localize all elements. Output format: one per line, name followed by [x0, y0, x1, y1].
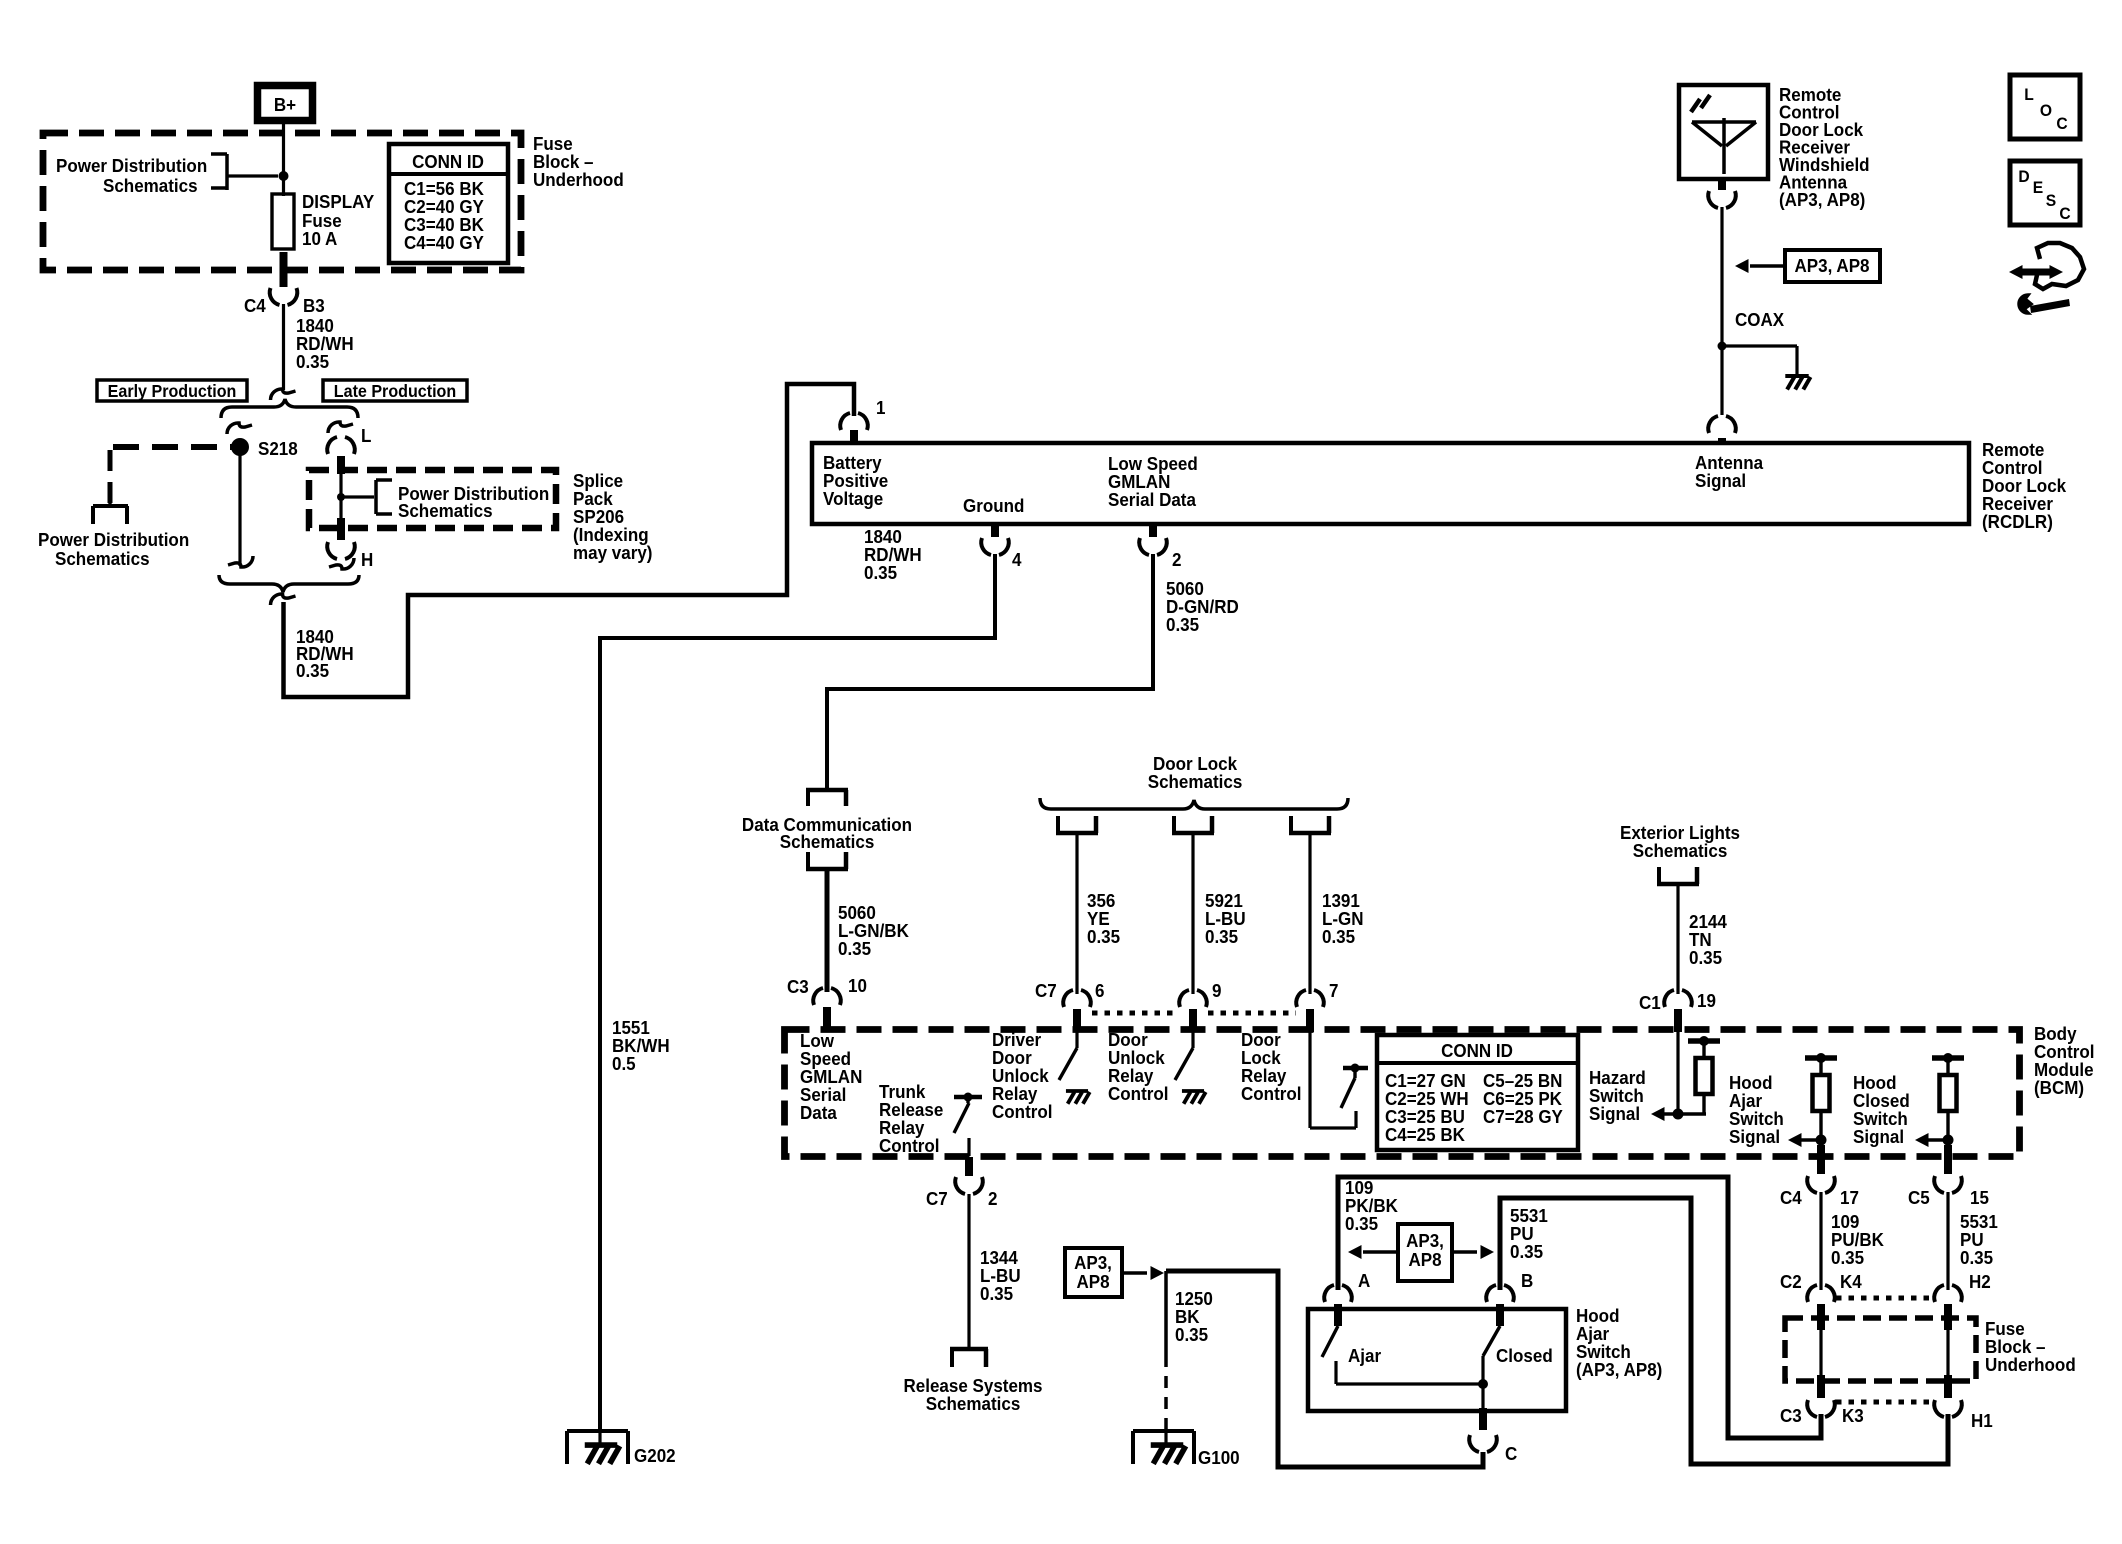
svg-text:AP3, AP8: AP3, AP8	[1794, 255, 1869, 276]
svg-text:Schematics: Schematics	[1633, 840, 1728, 861]
svg-text:G100: G100	[1198, 1447, 1240, 1468]
svg-text:H1: H1	[1971, 1410, 1993, 1431]
svg-text:1: 1	[876, 397, 886, 418]
svg-text:Early Production: Early Production	[108, 381, 237, 401]
svg-text:Power Distribution: Power Distribution	[38, 529, 189, 550]
svg-text:6: 6	[1095, 980, 1105, 1001]
svg-text:K4: K4	[1840, 1271, 1862, 1292]
svg-text:Underhood: Underhood	[533, 169, 624, 190]
svg-text:Ajar: Ajar	[1348, 1345, 1381, 1366]
svg-text:Schematics: Schematics	[926, 1393, 1021, 1414]
svg-text:Control: Control	[992, 1101, 1052, 1122]
svg-text:G202: G202	[634, 1445, 676, 1466]
svg-text:COAX: COAX	[1735, 309, 1784, 330]
svg-text:C4=40 GY: C4=40 GY	[404, 232, 484, 253]
svg-text:9: 9	[1212, 980, 1222, 1001]
svg-text:0.35: 0.35	[1510, 1241, 1543, 1262]
svg-text:C7: C7	[1035, 980, 1057, 1001]
svg-text:0.35: 0.35	[864, 562, 897, 583]
svg-text:15: 15	[1970, 1187, 1989, 1208]
svg-text:0.35: 0.35	[1960, 1247, 1993, 1268]
svg-text:Closed: Closed	[1496, 1345, 1553, 1366]
svg-text:Schematics: Schematics	[103, 175, 198, 196]
svg-text:AP8: AP8	[1076, 1271, 1109, 1292]
svg-text:0.35: 0.35	[838, 938, 871, 959]
svg-text:19: 19	[1697, 990, 1716, 1011]
svg-text:0.35: 0.35	[1831, 1247, 1864, 1268]
svg-text:C3: C3	[787, 976, 809, 997]
svg-text:(BCM): (BCM)	[2034, 1077, 2084, 1098]
svg-text:B: B	[1521, 1270, 1533, 1291]
svg-text:L: L	[2024, 85, 2034, 104]
svg-text:Schematics: Schematics	[55, 548, 150, 569]
svg-text:B+: B+	[274, 94, 296, 115]
svg-text:C: C	[2056, 114, 2067, 133]
svg-text:A: A	[1358, 1270, 1370, 1291]
svg-text:AP8: AP8	[1408, 1249, 1441, 1270]
svg-text:Ground: Ground	[963, 495, 1024, 516]
svg-text:H2: H2	[1969, 1271, 1991, 1292]
svg-text:C4: C4	[244, 295, 266, 316]
svg-text:C4: C4	[1780, 1187, 1802, 1208]
svg-text:0.35: 0.35	[1166, 614, 1199, 635]
svg-text:Serial Data: Serial Data	[1108, 489, 1196, 510]
svg-text:Late Production: Late Production	[334, 381, 456, 401]
svg-text:2: 2	[988, 1188, 998, 1209]
svg-text:C4=25 BK: C4=25 BK	[1385, 1124, 1465, 1145]
svg-text:S218: S218	[258, 438, 298, 459]
svg-text:B3: B3	[303, 295, 325, 316]
svg-text:4: 4	[1012, 549, 1022, 570]
svg-text:10: 10	[848, 975, 867, 996]
svg-text:Signal: Signal	[1695, 470, 1746, 491]
svg-text:E: E	[2033, 178, 2044, 197]
svg-text:0.35: 0.35	[1345, 1213, 1378, 1234]
svg-text:0.35: 0.35	[1087, 926, 1120, 947]
svg-text:(AP3, AP8): (AP3, AP8)	[1779, 189, 1865, 210]
svg-text:0.35: 0.35	[1689, 947, 1722, 968]
svg-text:C7=28 GY: C7=28 GY	[1483, 1106, 1563, 1127]
svg-text:Schematics: Schematics	[780, 831, 875, 852]
svg-text:Control: Control	[879, 1135, 939, 1156]
svg-text:CONN ID: CONN ID	[1441, 1040, 1513, 1061]
svg-text:Voltage: Voltage	[823, 488, 883, 509]
svg-text:C: C	[2059, 204, 2070, 223]
svg-text:Signal: Signal	[1589, 1103, 1640, 1124]
svg-text:D: D	[2018, 167, 2029, 186]
svg-text:Power Distribution: Power Distribution	[56, 155, 207, 176]
svg-text:Control: Control	[1108, 1083, 1168, 1104]
svg-text:Control: Control	[1241, 1083, 1301, 1104]
svg-text:may vary): may vary)	[573, 542, 653, 563]
svg-text:C2: C2	[1780, 1271, 1802, 1292]
svg-text:Data: Data	[800, 1102, 837, 1123]
svg-text:7: 7	[1329, 980, 1339, 1001]
svg-text:(AP3, AP8): (AP3, AP8)	[1576, 1359, 1662, 1380]
svg-text:K3: K3	[1842, 1405, 1864, 1426]
svg-text:Schematics: Schematics	[1148, 771, 1243, 792]
svg-text:17: 17	[1840, 1187, 1859, 1208]
svg-text:10 A: 10 A	[302, 228, 337, 249]
svg-text:O: O	[2040, 101, 2052, 120]
svg-text:2: 2	[1172, 549, 1182, 570]
svg-text:C3: C3	[1780, 1405, 1802, 1426]
svg-text:H: H	[361, 549, 373, 570]
svg-text:Signal: Signal	[1729, 1126, 1780, 1147]
svg-text:C5: C5	[1908, 1187, 1930, 1208]
svg-text:C1: C1	[1639, 992, 1661, 1013]
svg-text:L: L	[361, 425, 372, 446]
svg-text:0.35: 0.35	[1175, 1324, 1208, 1345]
svg-text:0.35: 0.35	[1322, 926, 1355, 947]
svg-text:DISPLAY: DISPLAY	[302, 191, 374, 212]
svg-text:0.35: 0.35	[296, 660, 329, 681]
svg-text:0.5: 0.5	[612, 1053, 636, 1074]
svg-text:Schematics: Schematics	[398, 500, 493, 521]
svg-text:S: S	[2046, 191, 2057, 210]
svg-text:Underhood: Underhood	[1985, 1354, 2076, 1375]
svg-text:AP3,: AP3,	[1406, 1230, 1444, 1251]
svg-text:AP3,: AP3,	[1074, 1252, 1112, 1273]
svg-text:C: C	[1505, 1443, 1517, 1464]
svg-text:C7: C7	[926, 1188, 948, 1209]
svg-text:CONN ID: CONN ID	[412, 151, 484, 172]
svg-text:0.35: 0.35	[1205, 926, 1238, 947]
svg-text:0.35: 0.35	[980, 1283, 1013, 1304]
svg-text:(RCDLR): (RCDLR)	[1982, 511, 2053, 532]
svg-text:Signal: Signal	[1853, 1126, 1904, 1147]
svg-text:0.35: 0.35	[296, 351, 329, 372]
